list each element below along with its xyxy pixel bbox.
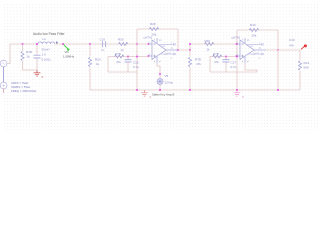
- wire L1 to node A: [55, 43, 90, 45]
- svg-text:R7B: R7B: [195, 58, 201, 62]
- svg-text:RC1: RC1: [304, 61, 310, 65]
- capacitor C10 series: [103, 41, 106, 47]
- svg-text:1.00KHz: 1.00KHz: [63, 54, 75, 58]
- node row2 junction stage2: [225, 55, 227, 57]
- svg-text:7u: 7u: [101, 48, 105, 52]
- svg-text:R20: R20: [95, 58, 101, 62]
- op-amp U1 uA741: [148, 38, 178, 63]
- svg-text:Audio low Pass Filter: Audio low Pass Filter: [33, 32, 66, 36]
- wire main stage1: [90, 43, 148, 45]
- resistor R40 feedback stage2: [249, 28, 258, 31]
- resistor R21 shunt stage2: [189, 50, 191, 57]
- resistor R20 shunt: [89, 44, 91, 57]
- wire row2 stage1: [108, 56, 148, 58]
- svg-text:47k: 47k: [116, 60, 121, 64]
- svg-text:L1: L1: [43, 37, 47, 41]
- wire bottom stage1: [108, 71, 137, 73]
- wire source bottom stub: [3, 89, 5, 93]
- svg-text:1k: 1k: [27, 55, 31, 59]
- svg-text:20k: 20k: [252, 33, 257, 37]
- source V2 inner mark: [2, 84, 5, 87]
- svg-text:47k: 47k: [289, 44, 294, 48]
- resistor R31 series stage2: [205, 42, 214, 45]
- op-amp U2 uA741: [236, 38, 266, 63]
- svg-text:V-: V-: [159, 60, 161, 63]
- source V2 circle: [0, 82, 7, 89]
- wire stage2 supply to bus: [277, 50, 279, 90]
- wire bottom stage2: [210, 71, 257, 73]
- svg-text:V5: V5: [165, 74, 169, 78]
- ground 0 bus right: [234, 90, 241, 96]
- svg-text:R7B: R7B: [213, 52, 219, 56]
- svg-text:C40: C40: [289, 38, 295, 42]
- wire input top: [23, 43, 39, 45]
- source V1 circle: [0, 60, 7, 67]
- ground 0 input: [34, 70, 41, 76]
- node B junction: [136, 43, 138, 45]
- source V1 sine mark: [2, 63, 6, 65]
- node V5 pin dot: [159, 73, 161, 75]
- capacitor C1 vertical: [36, 44, 38, 70]
- svg-text:R1B: R1B: [26, 50, 32, 54]
- svg-text:Sallen Key Amp/S: Sallen Key Amp/S: [152, 92, 175, 96]
- svg-text:1k: 1k: [121, 48, 125, 52]
- wire feedback top stage1: [137, 28, 178, 30]
- wire stage1 box to bus: [136, 72, 138, 90]
- node row2 fb junction stage1: [136, 55, 138, 57]
- capacitor C17 row2 stage2: [225, 57, 227, 73]
- wire source link: [3, 67, 5, 82]
- node bus junctions: [136, 89, 138, 91]
- node input junction: [21, 43, 23, 45]
- node row2 junction stage1: [127, 55, 129, 57]
- wire V5 to bus: [159, 84, 161, 90]
- svg-text:0.100u: 0.100u: [42, 58, 52, 62]
- wire feedback vertical stage2: [236, 30, 238, 72]
- svg-text:R20: R20: [205, 39, 211, 43]
- resistor R30 series: [119, 42, 128, 45]
- wire feedback down stage1: [177, 29, 179, 50]
- node output2 junction: [277, 49, 279, 51]
- ground 0 bus left: [141, 90, 148, 96]
- svg-text:12Vdc: 12Vdc: [165, 80, 174, 84]
- wire input bottom: [23, 69, 38, 71]
- svg-text:50K: 50K: [304, 66, 309, 70]
- svg-text:V-: V-: [247, 60, 249, 63]
- resistor R7C row2 stage2: [213, 55, 222, 58]
- resistor R7B row2 stage1: [115, 55, 124, 58]
- node C1 top junction: [36, 43, 38, 45]
- svg-text:0.7u: 0.7u: [231, 65, 237, 69]
- node pin2 dot stage2: [235, 43, 237, 45]
- svg-text:1.0: 1.0: [42, 53, 47, 57]
- inductor L1: [38, 42, 55, 44]
- svg-text:47k: 47k: [196, 62, 201, 66]
- wire row2 stage2: [210, 56, 236, 58]
- node row2 fb junction stage2: [236, 55, 238, 57]
- wire row2 left vertical stage2: [209, 57, 211, 73]
- capacitor C15 row2 stage1: [127, 57, 129, 73]
- svg-text:C10: C10: [100, 38, 106, 42]
- node stage1 input junction: [89, 43, 91, 45]
- node pin2 dot: [147, 43, 149, 45]
- node pin3 dot stage2: [235, 55, 237, 57]
- L1 pin mark: [56, 42, 57, 44]
- wire op-amp1 V- supply: [157, 63, 160, 79]
- wire output1 to stage2: [178, 44, 236, 50]
- svg-text:1k: 1k: [207, 47, 211, 51]
- node stage2 input junction: [189, 43, 191, 45]
- probe marker V green: [64, 45, 68, 49]
- probe marker red: [301, 46, 304, 49]
- wire feedback down stage2: [277, 30, 279, 50]
- wire source to input: [7, 44, 23, 64]
- svg-text:1k: 1k: [96, 62, 100, 66]
- svg-text:uA741: uA741: [144, 36, 153, 40]
- wire row2 left vertical stage1: [107, 57, 109, 73]
- svg-text:R28: R28: [150, 22, 156, 26]
- svg-text:20k: 20k: [152, 32, 157, 36]
- svg-text:50mH: 50mH: [42, 48, 50, 52]
- node pin3 dot: [147, 55, 149, 57]
- svg-text:uA741: uA741: [232, 36, 241, 40]
- svg-text:R7B: R7B: [115, 52, 121, 56]
- svg-text:47k: 47k: [214, 60, 219, 64]
- wire stage2 box to bus: [236, 72, 238, 90]
- svg-text:0.7u: 0.7u: [133, 65, 139, 69]
- resistor R50 load: [299, 50, 301, 60]
- wire ground bus: [90, 89, 300, 91]
- svg-text:R30: R30: [118, 38, 124, 42]
- wire feedback vertical stage1: [136, 29, 138, 72]
- source V5: [157, 78, 164, 85]
- node B2 junction: [236, 43, 238, 45]
- resistor R28 feedback: [149, 27, 158, 30]
- wire output2: [266, 49, 300, 51]
- node output1 junction: [177, 49, 179, 51]
- wire feedback top stage2: [237, 29, 278, 31]
- resistor R1 vertical: [22, 44, 24, 51]
- svg-text:FREQ = 2000.00Hz: FREQ = 2000.00Hz: [11, 89, 37, 93]
- node A junction: [62, 43, 64, 45]
- wire op-amp2 V- hook: [245, 63, 257, 72]
- svg-text:R40: R40: [250, 23, 256, 27]
